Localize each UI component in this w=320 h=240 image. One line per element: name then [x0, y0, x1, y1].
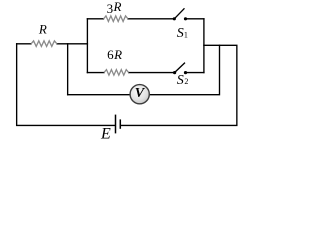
- svg-text:2: 2: [184, 77, 188, 86]
- svg-text:3R: 3R: [107, 0, 122, 16]
- svg-text:6R: 6R: [107, 47, 122, 62]
- svg-text:R: R: [38, 22, 47, 37]
- svg-text:S: S: [177, 73, 184, 88]
- svg-text:1: 1: [184, 31, 188, 40]
- svg-text:E: E: [100, 126, 111, 143]
- svg-text:S: S: [177, 26, 184, 41]
